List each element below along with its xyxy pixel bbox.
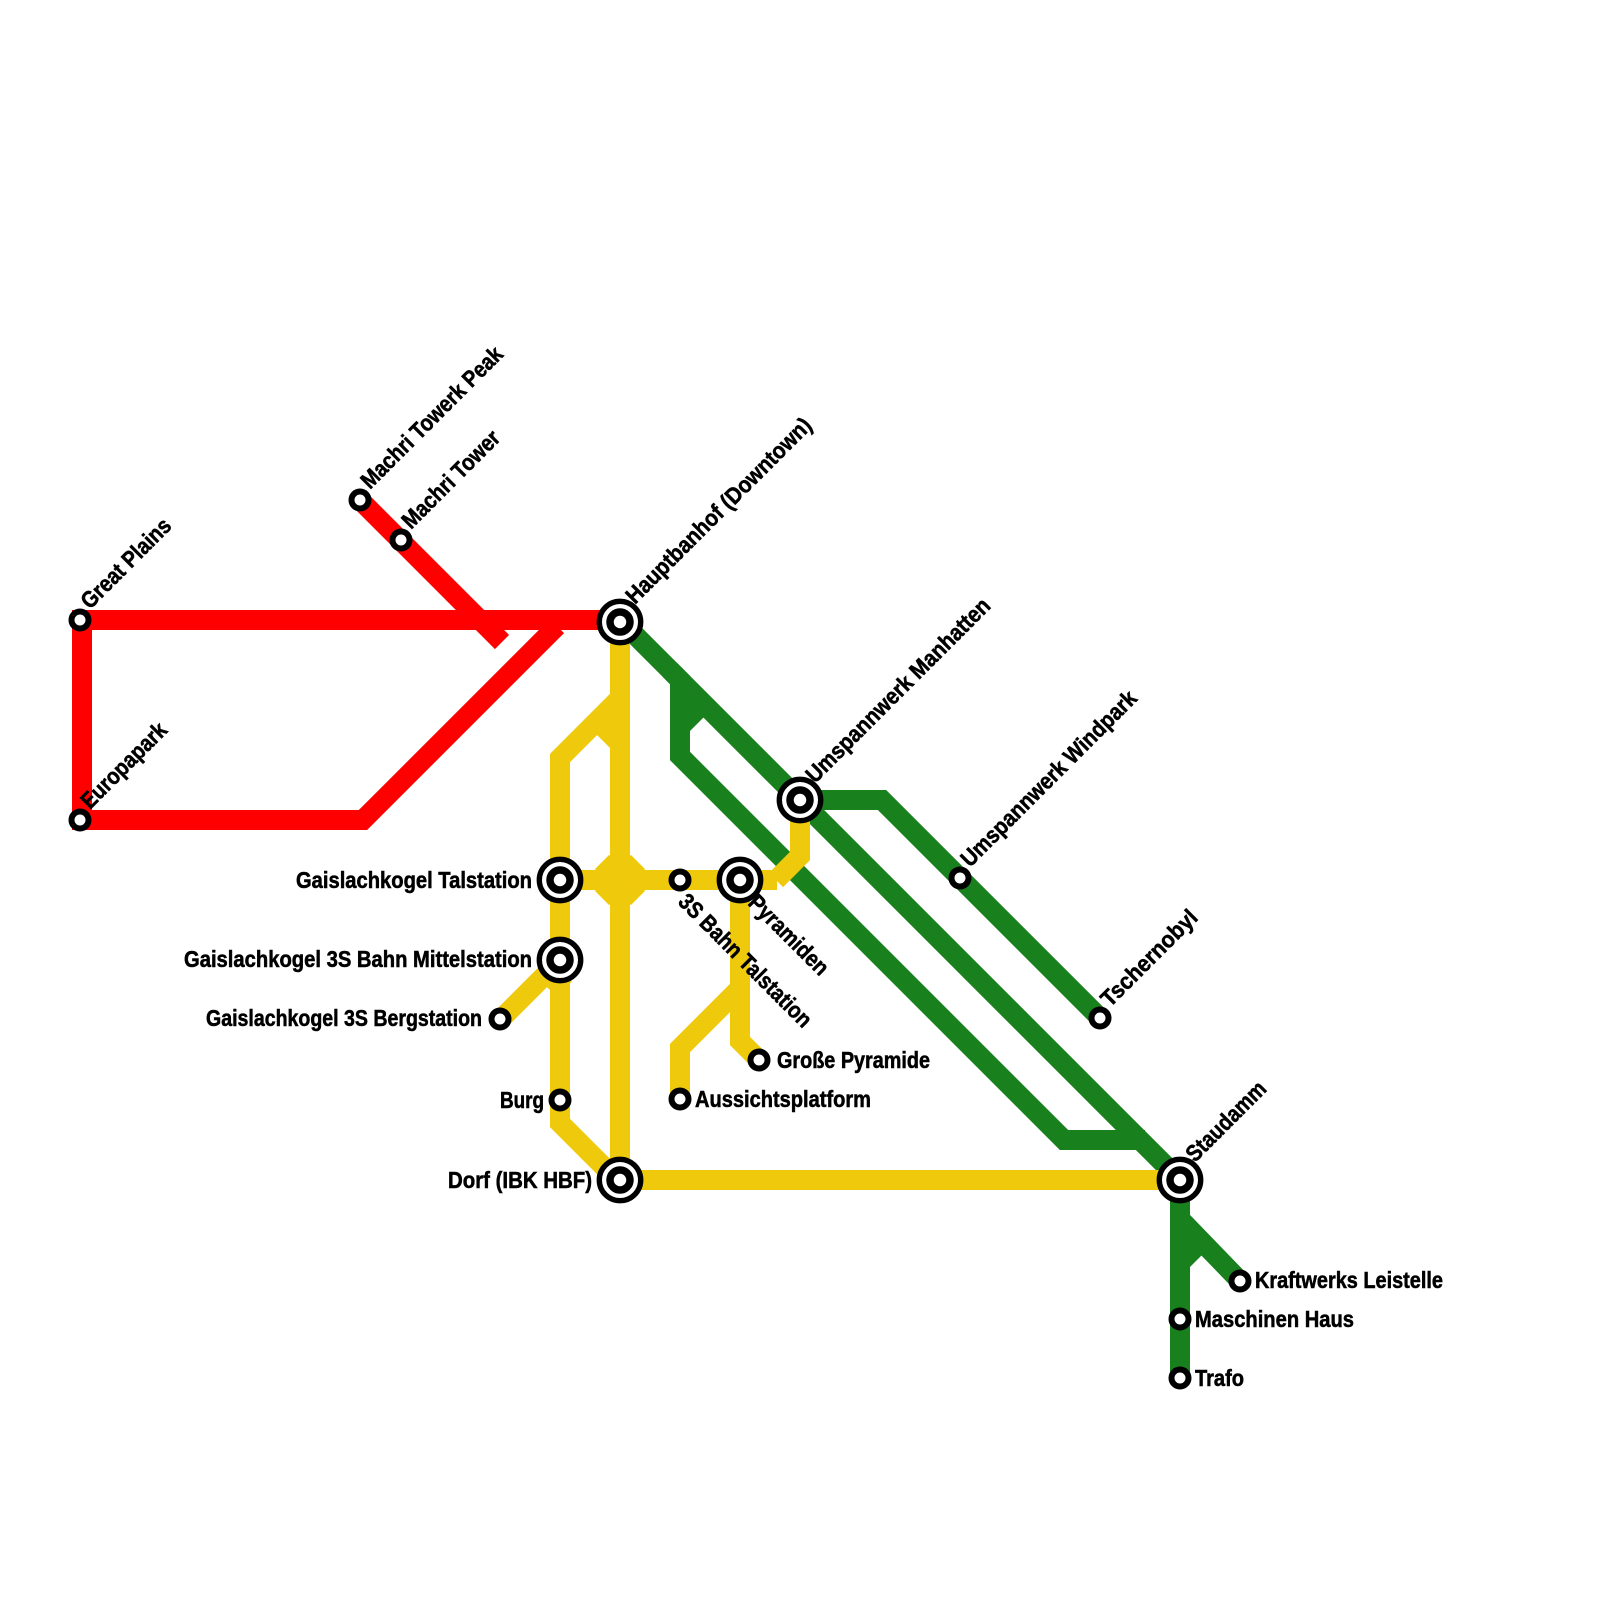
svg-text:Maschinen Haus: Maschinen Haus — [1195, 1306, 1354, 1332]
svg-text:Aussichtsplatform: Aussichtsplatform — [695, 1086, 871, 1112]
svg-text:Gaislachkogel 3S Bahn Mittelst: Gaislachkogel 3S Bahn Mittelstation — [184, 946, 532, 972]
svg-text:Kraftwerks Leistelle: Kraftwerks Leistelle — [1255, 1267, 1443, 1293]
svg-text:Gaislachkogel 3S Bergstation: Gaislachkogel 3S Bergstation — [206, 1005, 482, 1031]
svg-text:Burg: Burg — [500, 1087, 544, 1113]
svg-text:Dorf (IBK HBF): Dorf (IBK HBF) — [448, 1167, 592, 1193]
svg-text:Trafo: Trafo — [1195, 1365, 1244, 1391]
svg-text:Gaislachkogel Talstation: Gaislachkogel Talstation — [296, 867, 532, 893]
svg-text:Große Pyramide: Große Pyramide — [777, 1047, 930, 1073]
